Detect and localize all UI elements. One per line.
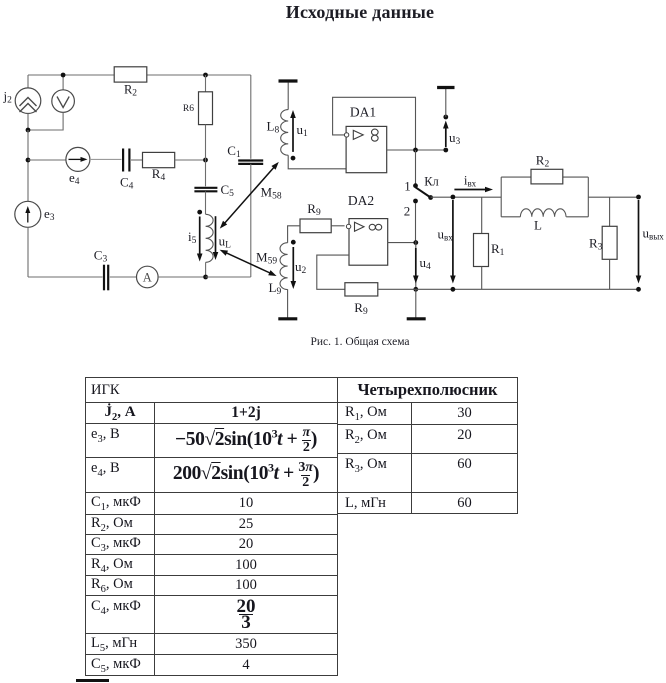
resistor R6: [199, 92, 213, 125]
label M58: [261, 185, 282, 202]
bottom edge artifact bar: [76, 679, 109, 682]
wire R9fb to node: [378, 288, 416, 290]
svg-text:1: 1: [404, 179, 411, 194]
label u4: [420, 255, 432, 272]
wire top right segment: [147, 74, 251, 76]
label i5: [188, 229, 197, 246]
node u_vyh top junction: [636, 195, 641, 200]
resistor R3: [602, 226, 617, 259]
svg-text:M59: M59: [256, 250, 277, 267]
label u_vx: [438, 227, 454, 243]
label R6: [183, 104, 194, 114]
label R2: [124, 83, 137, 99]
resistor R9 feedback: [345, 283, 378, 296]
svg-text:R2: R2: [536, 153, 550, 170]
node j2-V junction: [26, 128, 31, 133]
wire C4 to R4: [131, 159, 143, 161]
left data table IGK: [85, 377, 338, 676]
wire V branch bottom: [28, 112, 63, 130]
node DA2 output junction: [413, 240, 418, 245]
node u3 upper dot: [443, 115, 448, 120]
wire ground stub: [415, 289, 417, 317]
resistor R2 block: [531, 169, 563, 184]
wire j2 to node: [27, 114, 29, 131]
svg-text:A: A: [143, 271, 152, 285]
label R9 top: [307, 201, 321, 218]
wire C5 to L5: [205, 191, 207, 214]
svg-text:j2: j2: [3, 89, 13, 106]
wire u3 to ground: [445, 89, 447, 117]
label R2 block: [536, 153, 550, 170]
resistor R1: [474, 234, 489, 267]
label Kl: [424, 175, 439, 189]
node switch contact 1: [413, 183, 418, 188]
node bottom junction: [203, 275, 208, 280]
wire R4 to node: [175, 159, 206, 161]
wire left mid segment: [27, 130, 29, 201]
label C3: [94, 248, 108, 265]
label M59: [256, 250, 277, 267]
svg-text:R9: R9: [307, 201, 321, 218]
wire L9 bottom: [287, 289, 289, 317]
svg-text:R6: R6: [183, 104, 194, 114]
voltmeter V: [52, 90, 75, 113]
label C5: [221, 182, 235, 199]
label C4: [120, 175, 134, 192]
label 2: [404, 204, 411, 219]
wire L8 top: [287, 83, 289, 110]
op-amp DA2: [346, 219, 387, 266]
arrow i5: [197, 217, 203, 262]
wire bottom right segment: [206, 276, 251, 278]
label R3: [589, 236, 603, 253]
label e3: [44, 206, 55, 223]
wire right vertical bottom: [250, 164, 252, 277]
node top R6 junction: [203, 73, 208, 78]
node switch contact 2: [413, 199, 418, 204]
label DA2: [348, 193, 374, 208]
wire top left loop: [28, 74, 114, 76]
capacitor C1: [238, 161, 263, 164]
svg-text:L9: L9: [269, 280, 282, 297]
resistor R2: [114, 67, 147, 82]
label u3: [449, 130, 461, 147]
wire block to R3 node: [588, 196, 638, 198]
node switch pivot: [428, 195, 433, 200]
ground bar above L8: [279, 79, 298, 82]
svg-text:u2: u2: [295, 259, 307, 276]
arrow u2: [291, 247, 297, 289]
wire R3 top: [609, 197, 611, 226]
node top V junction: [61, 73, 66, 78]
node u_vx bottom junction: [451, 287, 456, 292]
page title: [54, 2, 666, 23]
svg-text:uвх: uвх: [438, 227, 454, 243]
label 1: [404, 179, 411, 194]
resistor R9 input: [300, 219, 331, 233]
wire right vertical top: [250, 75, 252, 159]
figure caption: [160, 336, 560, 348]
wire DA2 output: [388, 242, 416, 244]
label L9: [269, 280, 282, 297]
wire middle to e4: [28, 159, 66, 161]
mutual arrow M59: [220, 250, 277, 276]
wire V branch top: [62, 75, 64, 90]
label u_vyh: [643, 226, 665, 242]
svg-text:iвх: iвх: [464, 173, 477, 189]
svg-text:C3: C3: [94, 248, 108, 265]
label j2: [3, 89, 13, 106]
arrow i_vx: [454, 187, 493, 193]
switch blade: [416, 187, 431, 197]
label L block: [534, 218, 542, 233]
ground bar below L9: [278, 317, 297, 320]
wire R6 top: [205, 75, 207, 92]
node L9 polarity dot: [291, 240, 296, 245]
wire node to C5: [205, 160, 207, 186]
svg-text:u1: u1: [297, 122, 309, 139]
wire R6 bottom: [205, 125, 207, 160]
svg-text:C1: C1: [227, 143, 241, 160]
label L8: [267, 119, 280, 136]
wire switch2 vertical: [415, 241, 417, 289]
label R1: [491, 241, 505, 258]
parallel block outline: [501, 177, 588, 217]
wire R3 bottom: [609, 259, 611, 289]
wire junction to switch: [415, 150, 417, 184]
wire bottom right: [416, 288, 639, 290]
inductor L5: [206, 214, 214, 262]
svg-text:i5: i5: [188, 229, 197, 246]
svg-text:DA1: DA1: [350, 105, 376, 120]
svg-text:DA2: DA2: [348, 193, 374, 208]
label uL: [219, 234, 232, 251]
node DA1 feedback junction: [413, 148, 418, 153]
label C1: [227, 143, 241, 160]
svg-text:R9: R9: [354, 300, 368, 317]
label e4: [69, 170, 80, 187]
node middle-right junction: [203, 158, 208, 163]
wire L8 bottom: [288, 155, 346, 169]
wire bottom to C3: [28, 276, 103, 278]
label u2: [295, 259, 307, 276]
node u_vyh bottom junction: [636, 287, 641, 292]
svg-text:L8: L8: [267, 119, 280, 136]
source e4: [66, 147, 90, 171]
label DA1: [350, 105, 376, 120]
svg-text:L: L: [534, 218, 542, 233]
wire R9 to DA2: [331, 225, 344, 227]
svg-text:uвых: uвых: [643, 226, 665, 242]
current source j2: [15, 88, 41, 114]
svg-text:e3: e3: [44, 206, 55, 223]
svg-text:R1: R1: [491, 241, 505, 258]
svg-text:C5: C5: [221, 182, 235, 199]
capacitor C3: [104, 265, 108, 291]
arrow u1: [290, 110, 296, 152]
svg-text:u3: u3: [449, 130, 461, 147]
wire L5 to bottom: [205, 262, 207, 277]
ammeter A: [137, 266, 159, 288]
svg-text:Кл: Кл: [424, 175, 439, 189]
node bottom center junction: [413, 287, 418, 292]
arrow u_vyh: [636, 200, 642, 284]
svg-text:M58: M58: [261, 185, 282, 202]
ground bar above u3: [437, 86, 454, 89]
svg-text:R3: R3: [589, 236, 603, 253]
wire ammeter to node: [158, 276, 206, 278]
wire L9 to R9: [288, 226, 300, 243]
node u3 branch junction: [443, 148, 448, 153]
svg-text:R2: R2: [124, 83, 137, 99]
wire e4 to C4: [90, 158, 122, 160]
wire R1 bottom: [481, 267, 483, 290]
wire C3 to ammeter: [110, 276, 137, 278]
mutual arrow M58: [220, 162, 279, 229]
svg-text:R4: R4: [152, 166, 166, 183]
arrow u_vx: [450, 200, 456, 284]
wire R1 top: [481, 197, 483, 233]
source e3: [15, 201, 41, 227]
wire switch to block: [431, 196, 502, 198]
wire DA1 output: [387, 149, 446, 151]
svg-text:uL: uL: [219, 234, 232, 251]
arrow uL: [213, 216, 219, 260]
arrow u4: [413, 248, 419, 284]
node middle-left junction: [26, 158, 31, 163]
op-amp DA1: [344, 126, 386, 172]
node L8 polarity dot: [291, 156, 296, 161]
wire contact2 down: [415, 203, 417, 241]
inductor L8: [281, 110, 289, 156]
inductor L block: [520, 209, 566, 217]
inductor L9: [280, 243, 288, 290]
resistor R4: [143, 152, 175, 167]
capacitor C4: [123, 149, 129, 172]
label R9 feedback: [354, 300, 368, 317]
wire left vertical: [27, 75, 29, 88]
wire e3 to bottom: [27, 227, 29, 277]
label R4: [152, 166, 166, 183]
svg-text:C4: C4: [120, 175, 134, 192]
svg-text:e4: e4: [69, 170, 80, 187]
svg-text:u4: u4: [420, 255, 432, 272]
wire DA1 feedback: [333, 97, 416, 150]
svg-text:2: 2: [404, 204, 411, 219]
label i_vx: [464, 173, 477, 189]
wire DA2 plus feedback: [317, 255, 349, 289]
ground bar below u4: [407, 317, 426, 320]
node u_vx top junction: [451, 195, 456, 200]
arrow u3: [443, 121, 449, 148]
node L5 polarity dot: [197, 210, 202, 215]
capacitor C5: [194, 188, 217, 192]
right data table quadripole: [337, 377, 518, 514]
label u1: [297, 122, 309, 139]
